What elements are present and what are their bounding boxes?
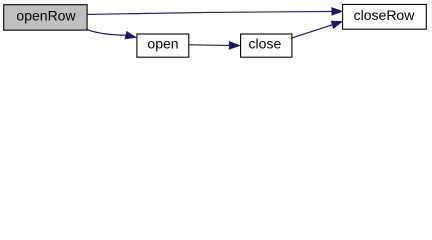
svg-text:openRow: openRow <box>16 7 76 23</box>
wire close to closeRow <box>292 25 332 38</box>
node openRow (highlighted) <box>4 5 87 30</box>
node close <box>241 34 292 57</box>
node open <box>137 34 189 57</box>
svg-text:open: open <box>147 36 178 52</box>
wire open to close <box>189 44 229 47</box>
arrowhead into close <box>229 41 240 49</box>
wire openRow to closeRow <box>87 11 332 14</box>
svg-text:close: close <box>249 36 282 52</box>
arrowhead into closeRow (upper) <box>332 8 343 16</box>
arrowhead into closeRow (lower) <box>331 21 342 28</box>
arrowhead into open <box>125 31 136 39</box>
svg-text:closeRow: closeRow <box>354 7 416 23</box>
wire openRow to open <box>87 30 126 36</box>
node closeRow <box>343 4 427 29</box>
